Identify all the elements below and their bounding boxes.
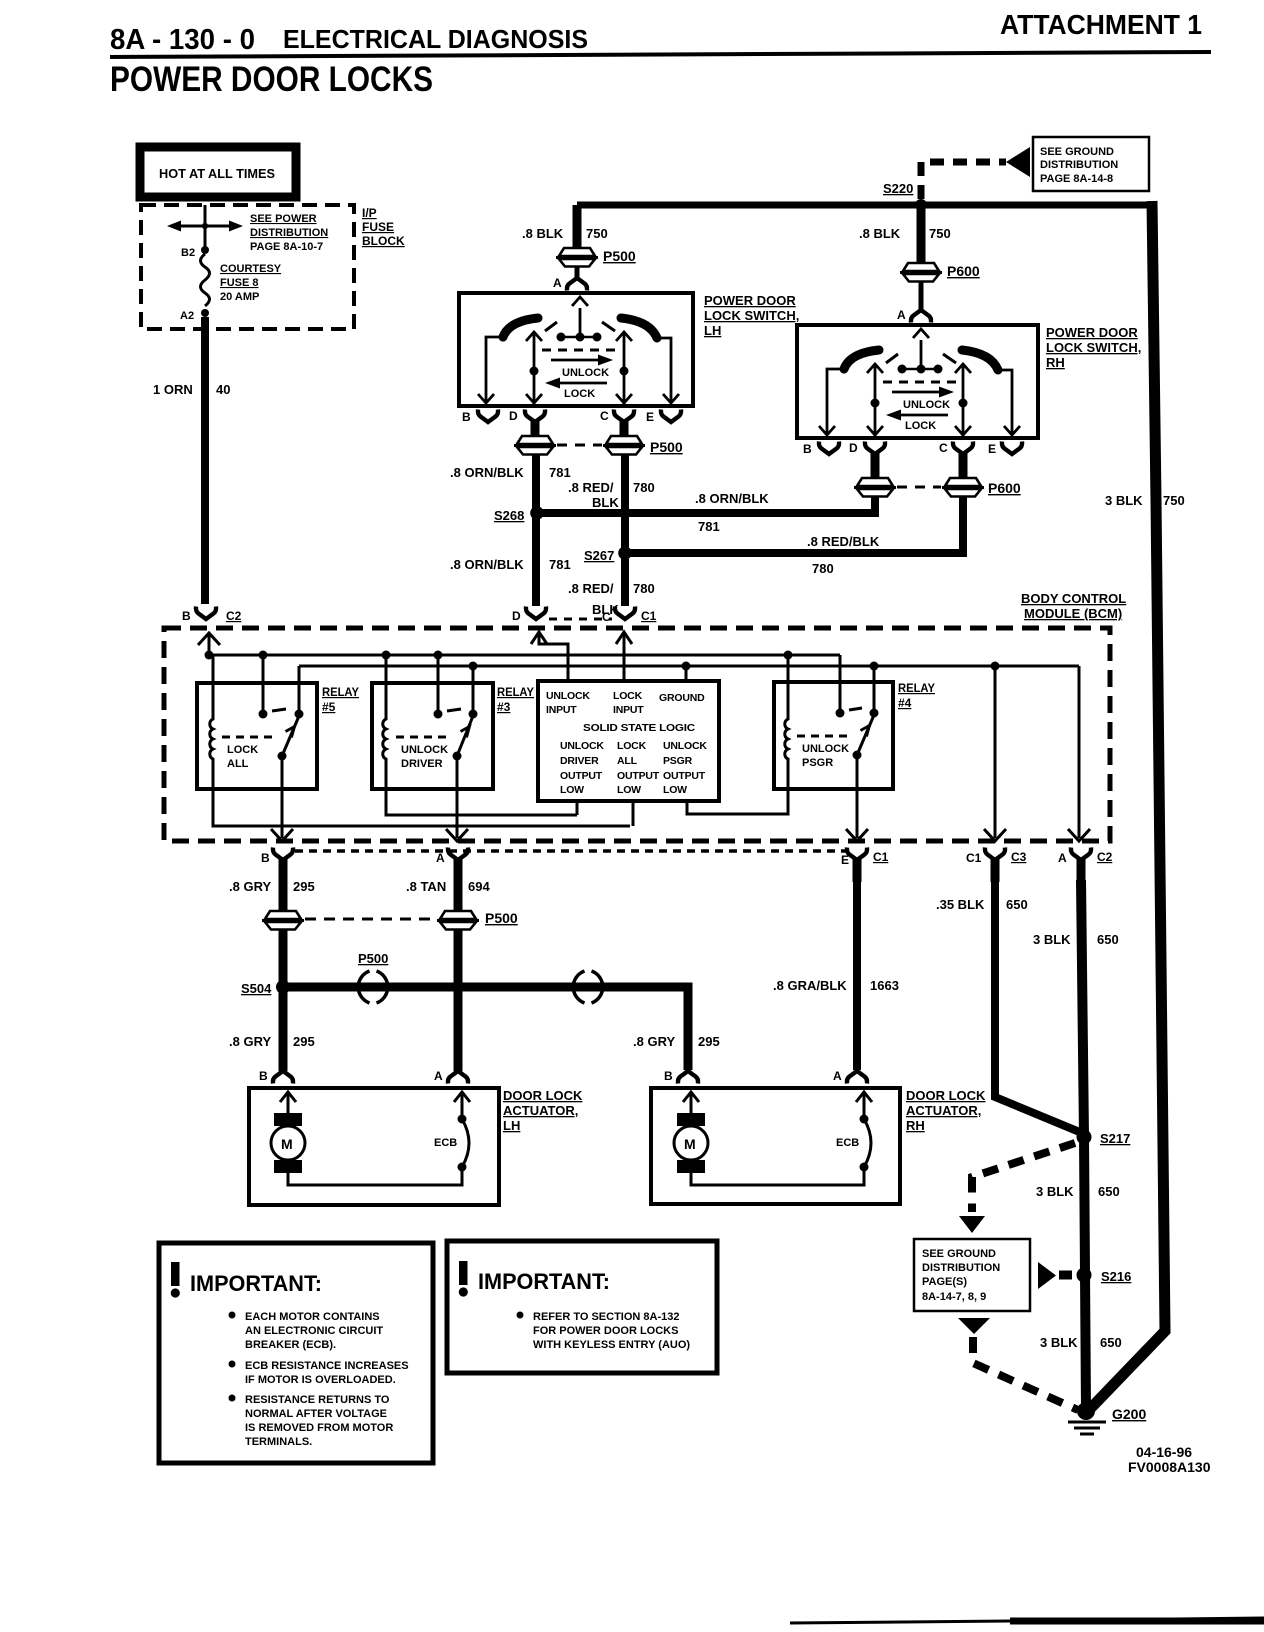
svg-text:LOCK SWITCH,: LOCK SWITCH, bbox=[1046, 340, 1141, 355]
RH switch terminal B bbox=[819, 442, 839, 455]
svg-text:RELAY: RELAY bbox=[322, 685, 359, 699]
svg-text:1 ORN: 1 ORN bbox=[153, 382, 193, 397]
BCM input arrow at B bbox=[198, 633, 220, 645]
svg-text:750: 750 bbox=[929, 226, 951, 241]
svg-text:M: M bbox=[281, 1136, 293, 1152]
svg-text:C3: C3 bbox=[1011, 850, 1027, 864]
common contact dots bbox=[899, 368, 941, 371]
svg-text:#5: #5 bbox=[322, 700, 336, 714]
svg-text:GROUND: GROUND bbox=[659, 692, 705, 704]
svg-text:.8 RED/: .8 RED/ bbox=[568, 480, 614, 495]
left contact pad (thick arc) bbox=[844, 350, 879, 369]
BCM bottom terminal E / C1 bbox=[847, 848, 867, 861]
page-bottom scan line bbox=[790, 1618, 1264, 1623]
svg-text:UNLOCK: UNLOCK bbox=[903, 399, 950, 411]
LH switch terminal C bbox=[614, 410, 634, 423]
BCM keyless-entry dotted line bbox=[295, 849, 848, 853]
svg-text:781: 781 bbox=[549, 465, 571, 480]
switch common feed wire with up arrow bbox=[579, 308, 582, 337]
svg-text:LOCK: LOCK bbox=[617, 740, 647, 752]
wire 3 BLK 650 from A/C2 down bbox=[1081, 880, 1086, 1410]
motor M (LH) bbox=[274, 1113, 302, 1126]
LH switch terminal B bbox=[478, 410, 498, 423]
wire .8 BLK 750 to LH switch bbox=[573, 205, 582, 248]
connector P600 on wire C bbox=[942, 478, 984, 497]
svg-text:.8 GRY: .8 GRY bbox=[633, 1034, 675, 1049]
wire 3 BLK 750 right side down to G200 bbox=[1090, 201, 1165, 1409]
ground symbol bbox=[1068, 1422, 1106, 1434]
wire A continues to LH actuator bbox=[454, 929, 463, 1071]
lock direction arrow bbox=[898, 414, 948, 417]
svg-text:UNLOCK: UNLOCK bbox=[802, 743, 849, 755]
S504 cross wire to RH actuator bbox=[286, 987, 688, 1070]
svg-text:295: 295 bbox=[293, 879, 315, 894]
svg-text:LOCK: LOCK bbox=[613, 690, 643, 702]
splice S216 bbox=[1077, 1268, 1092, 1283]
svg-text:BLK: BLK bbox=[592, 495, 619, 510]
right contact pad (thick arc) bbox=[621, 318, 657, 338]
svg-text:S216: S216 bbox=[1101, 1269, 1131, 1284]
relay #5 box bbox=[197, 683, 317, 789]
svg-text:LOCK SWITCH,: LOCK SWITCH, bbox=[704, 308, 799, 323]
svg-text:DOOR LOCK: DOOR LOCK bbox=[906, 1088, 986, 1103]
svg-text:POWER DOOR: POWER DOOR bbox=[1046, 325, 1138, 340]
BCM ground stub to logic bbox=[685, 666, 688, 681]
svg-text:LOW: LOW bbox=[617, 784, 641, 796]
svg-text:B: B bbox=[259, 1069, 268, 1083]
switch RH box bbox=[797, 325, 1038, 438]
splice S217 bbox=[1077, 1130, 1092, 1145]
connector P500 (LH switch feed) bbox=[556, 248, 598, 267]
svg-text:C: C bbox=[600, 409, 609, 423]
svg-text:BREAKER (ECB).: BREAKER (ECB). bbox=[245, 1339, 336, 1351]
courtesy fuse 8 20 amp bbox=[201, 254, 210, 306]
svg-text:.8 ORN/BLK: .8 ORN/BLK bbox=[450, 465, 524, 480]
dashed tie between P500 halves bbox=[305, 918, 436, 921]
BCM bottom terminal B bbox=[273, 848, 293, 861]
relay #5 label bbox=[322, 685, 359, 714]
svg-text:S267: S267 bbox=[584, 548, 614, 563]
svg-text:IS REMOVED FROM MOTOR: IS REMOVED FROM MOTOR bbox=[245, 1422, 393, 1434]
wire B into motor (RH) bbox=[690, 1092, 693, 1113]
wire .8 GRA/BLK 1663 from E/C1 bbox=[853, 880, 861, 1070]
svg-text:B: B bbox=[664, 1069, 673, 1083]
svg-text:FUSE 8: FUSE 8 bbox=[220, 277, 259, 289]
callout arrow to S216 bbox=[1038, 1262, 1056, 1289]
svg-text:WITH KEYLESS ENTRY (AUO): WITH KEYLESS ENTRY (AUO) bbox=[533, 1339, 690, 1351]
wire .8 BLK 750 to RH switch bbox=[917, 205, 926, 263]
svg-text:P600: P600 bbox=[947, 263, 980, 279]
wire from hot box into fuse block bbox=[204, 205, 207, 250]
svg-text:HOT AT ALL TIMES: HOT AT ALL TIMES bbox=[159, 166, 275, 181]
svg-text:04-16-96: 04-16-96 bbox=[1136, 1444, 1192, 1460]
svg-text:20 AMP: 20 AMP bbox=[220, 291, 259, 303]
svg-text:D: D bbox=[849, 441, 858, 455]
svg-text:OUTPUT: OUTPUT bbox=[560, 770, 603, 782]
svg-text:C1: C1 bbox=[966, 851, 982, 865]
svg-text:IMPORTANT:: IMPORTANT: bbox=[478, 1269, 610, 1294]
wire .35 BLK 650 from C1/C3 to S217 bbox=[995, 880, 1082, 1133]
I/P fuse block name label bbox=[362, 206, 405, 248]
BCM bottom terminal C1 / C3 bbox=[985, 848, 1005, 861]
switch RH name label bbox=[1046, 325, 1141, 370]
svg-text:POWER DOOR: POWER DOOR bbox=[704, 293, 796, 308]
svg-text:780: 780 bbox=[812, 561, 834, 576]
triangle into callout box bbox=[959, 1216, 985, 1233]
svg-text:DISTRIBUTION: DISTRIBUTION bbox=[250, 227, 328, 239]
terminal C riser with arrow and junction bbox=[623, 333, 626, 404]
LH switch terminal D bbox=[525, 410, 545, 423]
svg-text:A: A bbox=[436, 851, 445, 865]
connector P600 on wire D bbox=[854, 478, 896, 497]
relay #4 fixed contact riser bbox=[873, 666, 876, 713]
wire .8 ORN/BLK 781 LH D down bbox=[532, 454, 540, 606]
svg-text:.8 GRY: .8 GRY bbox=[229, 1034, 271, 1049]
svg-text:FV0008A130: FV0008A130 bbox=[1128, 1459, 1211, 1475]
svg-text:#3: #3 bbox=[497, 700, 511, 714]
svg-text:8A - 130 - 0: 8A - 130 - 0 bbox=[110, 24, 255, 56]
junction dots on bus 1 bbox=[205, 651, 214, 660]
actuator LH box bbox=[249, 1088, 499, 1205]
RH switch terminal C bbox=[953, 442, 973, 455]
unlock direction arrow bbox=[551, 359, 600, 362]
terminal B2 bbox=[201, 246, 209, 254]
svg-text:I/P: I/P bbox=[362, 206, 377, 220]
svg-text:.8 TAN: .8 TAN bbox=[406, 879, 446, 894]
svg-text:S217: S217 bbox=[1100, 1131, 1130, 1146]
rocker dashed travel line bbox=[883, 381, 957, 384]
svg-text:POWER DOOR LOCKS: POWER DOOR LOCKS bbox=[110, 60, 433, 99]
terminal A (LH switch) bbox=[567, 278, 587, 291]
svg-text:.8 RED/: .8 RED/ bbox=[568, 581, 614, 596]
svg-text:DRIVER: DRIVER bbox=[560, 755, 599, 767]
terminal B drop wire bbox=[486, 337, 504, 402]
svg-text:OUTPUT: OUTPUT bbox=[617, 770, 660, 782]
svg-text:750: 750 bbox=[1163, 493, 1185, 508]
important box 1 bbox=[159, 1243, 433, 1463]
dashed rocker stubs bbox=[545, 322, 557, 331]
svg-text:PAGE 8A-14-8: PAGE 8A-14-8 bbox=[1040, 173, 1113, 185]
left contact pad (thick arc) bbox=[503, 318, 538, 337]
svg-text:MODULE (BCM): MODULE (BCM) bbox=[1024, 606, 1122, 621]
svg-text:RELAY: RELAY bbox=[898, 681, 935, 695]
wire A into ECB (RH) bbox=[863, 1092, 866, 1119]
svg-text:780: 780 bbox=[633, 581, 655, 596]
ECB (LH) bbox=[458, 1115, 467, 1124]
svg-text:SOLID STATE LOGIC: SOLID STATE LOGIC bbox=[583, 722, 696, 734]
dashed tie between P500 halves bbox=[557, 444, 602, 447]
dashed tie between BCM terminals D and C bbox=[549, 618, 612, 621]
top bus wire .8 BLK 750 bbox=[577, 202, 1151, 209]
svg-text:8A-14-7, 8, 9: 8A-14-7, 8, 9 bbox=[922, 1291, 986, 1303]
ground G200 bbox=[1077, 1402, 1095, 1420]
solid state logic box bbox=[538, 681, 719, 801]
svg-text:DISTRIBUTION: DISTRIBUTION bbox=[922, 1262, 1000, 1274]
svg-text:LH: LH bbox=[503, 1118, 520, 1133]
svg-text:ACTUATOR,: ACTUATOR, bbox=[503, 1103, 578, 1118]
see ground distribution callout box (top) bbox=[1033, 137, 1149, 191]
right contact pad (thick arc) bbox=[962, 350, 998, 370]
relay #3 label bbox=[497, 685, 534, 714]
switch LH box bbox=[459, 293, 693, 406]
svg-text:.8 BLK: .8 BLK bbox=[859, 226, 901, 241]
terminal E drop wire bbox=[997, 370, 1012, 434]
svg-text:D: D bbox=[512, 609, 521, 623]
wire .8 ORN/BLK 781 cross to RH D bbox=[540, 496, 875, 513]
svg-text:P500: P500 bbox=[485, 910, 518, 926]
terminal D riser with arrow and junction bbox=[874, 365, 877, 436]
svg-text:P500: P500 bbox=[358, 951, 388, 966]
svg-text:ACTUATOR,: ACTUATOR, bbox=[906, 1103, 981, 1118]
BCM output wire to C1/C3 bbox=[994, 666, 997, 838]
svg-text:UNLOCK: UNLOCK bbox=[546, 690, 590, 702]
BCM internal supply bus (line 1) bbox=[209, 633, 840, 655]
svg-text:S504: S504 bbox=[241, 981, 272, 996]
wire .8 RED/BLK 780 cross to RH C bbox=[628, 496, 963, 553]
svg-text:P600: P600 bbox=[988, 480, 1021, 496]
relay #5 contact gap dash bbox=[272, 709, 286, 711]
svg-text:NORMAL AFTER VOLTAGE: NORMAL AFTER VOLTAGE bbox=[245, 1408, 387, 1420]
motor M (RH) bbox=[677, 1113, 705, 1126]
BCM internal switched bus (line 2) bbox=[299, 665, 1079, 668]
svg-text:3 BLK: 3 BLK bbox=[1040, 1335, 1078, 1350]
svg-text:.8 GRY: .8 GRY bbox=[229, 879, 271, 894]
actuator RH name label bbox=[906, 1088, 986, 1133]
svg-text:ATTACHMENT 1: ATTACHMENT 1 bbox=[1000, 9, 1202, 40]
BCM bottom terminal A / C2 bbox=[1071, 848, 1091, 861]
terminal B drop wire bbox=[827, 369, 845, 434]
relay #3 output wire to terminal A bbox=[456, 756, 459, 838]
svg-text:1663: 1663 bbox=[870, 978, 899, 993]
inline connector on cross wire (right) bbox=[573, 971, 603, 1003]
LH actuator terminal A bbox=[448, 1071, 468, 1084]
RH actuator terminal A bbox=[847, 1071, 867, 1084]
svg-text:C: C bbox=[939, 441, 948, 455]
svg-text:3 BLK: 3 BLK bbox=[1033, 932, 1071, 947]
relay #3 contact gap dash bbox=[447, 709, 461, 711]
svg-text:650: 650 bbox=[1097, 932, 1119, 947]
BCM output wire to A/C2 bbox=[1078, 666, 1081, 838]
svg-text:3 BLK: 3 BLK bbox=[1105, 493, 1143, 508]
svg-text:780: 780 bbox=[633, 480, 655, 495]
BCM lock input wire from terminal C bbox=[616, 632, 632, 644]
svg-text:COURTESY: COURTESY bbox=[220, 263, 282, 275]
relay #4 box bbox=[774, 682, 893, 789]
svg-text:ALL: ALL bbox=[617, 755, 638, 767]
svg-text:BLOCK: BLOCK bbox=[362, 234, 405, 248]
splice S504 bbox=[276, 980, 290, 994]
see ground distribution callout box (bottom) bbox=[914, 1239, 1030, 1311]
dashed lead S217 to callout bbox=[972, 1143, 1075, 1212]
wire 1 ORN 40 from fuse to BCM bbox=[201, 317, 209, 604]
connector P500 on A wire bbox=[437, 911, 479, 930]
wire into terminal A (RH) bbox=[919, 282, 924, 310]
svg-text:IMPORTANT:: IMPORTANT: bbox=[190, 1271, 322, 1296]
RH switch terminal D bbox=[865, 442, 885, 455]
svg-text:S268: S268 bbox=[494, 508, 524, 523]
relay #4 dashed coupler bbox=[797, 735, 851, 738]
svg-text:OUTPUT: OUTPUT bbox=[663, 770, 706, 782]
svg-text:LH: LH bbox=[704, 323, 721, 338]
dashed tie between P600 halves bbox=[897, 486, 941, 489]
svg-text:G200: G200 bbox=[1112, 1406, 1146, 1422]
svg-text:781: 781 bbox=[698, 519, 720, 534]
svg-text:750: 750 bbox=[586, 226, 608, 241]
svg-text:C2: C2 bbox=[1097, 850, 1113, 864]
connector P500 on wire C bbox=[603, 436, 645, 455]
svg-text:PSGR: PSGR bbox=[663, 755, 693, 767]
BCM terminal B / C2 (top) bbox=[196, 607, 216, 620]
relay #3 box bbox=[372, 683, 493, 789]
svg-text:P500: P500 bbox=[650, 439, 683, 455]
RH actuator terminal B bbox=[678, 1071, 698, 1084]
svg-text:EACH MOTOR CONTAINS: EACH MOTOR CONTAINS bbox=[245, 1311, 380, 1323]
relay #3 fixed contact riser bbox=[472, 666, 475, 714]
motor return wire (RH) bbox=[691, 1167, 864, 1185]
svg-text:LOCK: LOCK bbox=[227, 744, 258, 756]
switch common feed wire with up arrow bbox=[920, 340, 923, 369]
connector P500 on wire D bbox=[514, 436, 556, 455]
terminal C riser with arrow and junction bbox=[962, 365, 965, 436]
svg-text:#4: #4 bbox=[898, 696, 912, 710]
svg-text:C1: C1 bbox=[641, 609, 657, 623]
hot-at-all-times power box bbox=[140, 147, 296, 197]
splice S268 bbox=[530, 506, 544, 520]
svg-text:LOCK: LOCK bbox=[905, 420, 936, 432]
svg-text:295: 295 bbox=[698, 1034, 720, 1049]
svg-text:A: A bbox=[1058, 851, 1067, 865]
relay #4 contact gap dash bbox=[849, 708, 862, 710]
stub from S220 to ground distribution dashed lead bbox=[921, 162, 1006, 199]
common contact dots bbox=[558, 336, 600, 339]
svg-text:B2: B2 bbox=[181, 247, 195, 259]
splice S220 bbox=[915, 199, 927, 211]
terminal A (RH switch) bbox=[911, 310, 931, 323]
relay #5 coil bbox=[210, 655, 630, 826]
relay #4 label bbox=[898, 681, 935, 710]
svg-text:B: B bbox=[261, 851, 270, 865]
svg-text:694: 694 bbox=[468, 879, 490, 894]
svg-text:ALL: ALL bbox=[227, 758, 249, 770]
BCM unlock input wire from terminal D bbox=[531, 632, 547, 644]
svg-text:B: B bbox=[182, 609, 191, 623]
svg-text:ECB: ECB bbox=[836, 1137, 859, 1149]
I/P fuse block dashed boundary bbox=[141, 205, 354, 329]
splice S267 bbox=[618, 546, 632, 560]
svg-text:UNLOCK: UNLOCK bbox=[663, 740, 707, 752]
motor return wire (LH) bbox=[288, 1167, 462, 1185]
svg-text:B: B bbox=[462, 410, 471, 424]
svg-text:A: A bbox=[553, 276, 562, 290]
connector P600 (RH switch feed) bbox=[900, 263, 942, 282]
svg-text:SEE GROUND: SEE GROUND bbox=[1040, 146, 1114, 158]
svg-text:LOCK: LOCK bbox=[564, 388, 595, 400]
svg-text:DRIVER: DRIVER bbox=[401, 758, 443, 770]
svg-text:FOR POWER DOOR LOCKS: FOR POWER DOOR LOCKS bbox=[533, 1325, 678, 1337]
svg-text:.8 ORN/BLK: .8 ORN/BLK bbox=[695, 491, 769, 506]
switch LH name label bbox=[704, 293, 799, 338]
wire into terminal A bbox=[575, 267, 580, 278]
svg-text:ECB: ECB bbox=[434, 1137, 457, 1149]
svg-text:E: E bbox=[841, 853, 849, 867]
relay #5 output wire to terminal B bbox=[281, 756, 284, 838]
svg-text:IF MOTOR IS OVERLOADED.: IF MOTOR IS OVERLOADED. bbox=[245, 1374, 396, 1386]
BCM terminal C / C1 (top) bbox=[615, 607, 635, 620]
relay #4 armature bbox=[857, 715, 874, 755]
BCM name label bbox=[1021, 591, 1126, 621]
relay #4 output wire to terminal E bbox=[856, 755, 859, 838]
svg-text:RH: RH bbox=[906, 1118, 925, 1133]
relay #4 pivot riser from bus 1 bbox=[839, 655, 842, 713]
svg-text:.35 BLK: .35 BLK bbox=[936, 897, 985, 912]
ECB (RH) bbox=[860, 1115, 869, 1124]
svg-text:781: 781 bbox=[549, 557, 571, 572]
logic unlock-psgr output wire bbox=[687, 789, 788, 814]
relay #4 coil bbox=[785, 655, 788, 789]
svg-text:PAGE 8A-10-7: PAGE 8A-10-7 bbox=[250, 241, 323, 253]
svg-text:.8 ORN/BLK: .8 ORN/BLK bbox=[450, 557, 524, 572]
svg-text:650: 650 bbox=[1100, 1335, 1122, 1350]
svg-text:PAGE(S): PAGE(S) bbox=[922, 1276, 967, 1288]
svg-text:A: A bbox=[434, 1069, 443, 1083]
bus arrows inside fuse block bbox=[167, 221, 243, 232]
svg-text:TERMINALS.: TERMINALS. bbox=[245, 1436, 312, 1448]
svg-text:B: B bbox=[803, 442, 812, 456]
svg-text:.8 BLK: .8 BLK bbox=[522, 226, 564, 241]
svg-text:PSGR: PSGR bbox=[802, 757, 833, 769]
svg-text:DOOR LOCK: DOOR LOCK bbox=[503, 1088, 583, 1103]
relay #3 armature bbox=[457, 716, 473, 756]
svg-text:M: M bbox=[684, 1136, 696, 1152]
lock direction arrow bbox=[557, 382, 607, 385]
LH switch terminal E bbox=[661, 410, 681, 423]
terminal E drop wire bbox=[656, 338, 671, 402]
LH actuator terminal B bbox=[273, 1071, 293, 1084]
svg-text:LOW: LOW bbox=[560, 784, 584, 796]
BCM bottom terminal A bbox=[448, 848, 468, 861]
svg-text:INPUT: INPUT bbox=[546, 704, 577, 716]
svg-text:650: 650 bbox=[1006, 897, 1028, 912]
relay #3 coil bbox=[383, 655, 577, 815]
svg-text:BODY CONTROL: BODY CONTROL bbox=[1021, 591, 1126, 606]
svg-text:40: 40 bbox=[216, 382, 230, 397]
svg-text:SEE POWER: SEE POWER bbox=[250, 213, 317, 225]
svg-text:650: 650 bbox=[1098, 1184, 1120, 1199]
svg-text:DISTRIBUTION: DISTRIBUTION bbox=[1040, 159, 1118, 171]
svg-text:INPUT: INPUT bbox=[613, 704, 644, 716]
terminal D riser with arrow and junction bbox=[533, 333, 536, 404]
header underline bbox=[110, 52, 1211, 57]
svg-text:D: D bbox=[509, 409, 518, 423]
svg-text:FUSE: FUSE bbox=[362, 220, 394, 234]
svg-text:C1: C1 bbox=[873, 850, 889, 864]
svg-text:UNLOCK: UNLOCK bbox=[562, 367, 609, 379]
dashed rocker stubs bbox=[886, 354, 898, 363]
dashed lead from callout to G200 bbox=[973, 1337, 1078, 1410]
important box 2 bbox=[447, 1241, 717, 1373]
svg-text:ELECTRICAL DIAGNOSIS: ELECTRICAL DIAGNOSIS bbox=[283, 24, 588, 54]
svg-text:LOW: LOW bbox=[663, 784, 687, 796]
relay #5 fixed contact riser bbox=[298, 666, 301, 714]
svg-text:.8 GRA/BLK: .8 GRA/BLK bbox=[773, 978, 847, 993]
relay #5 dashed coupler bbox=[222, 736, 276, 739]
svg-text:RH: RH bbox=[1046, 355, 1065, 370]
relay #3 dashed coupler bbox=[396, 736, 451, 739]
see power distribution note bbox=[250, 213, 328, 253]
junction dots on bus 2 bbox=[469, 662, 478, 671]
wire B into motor bbox=[287, 1092, 290, 1113]
inline connector on cross wire (left) bbox=[358, 971, 388, 1003]
